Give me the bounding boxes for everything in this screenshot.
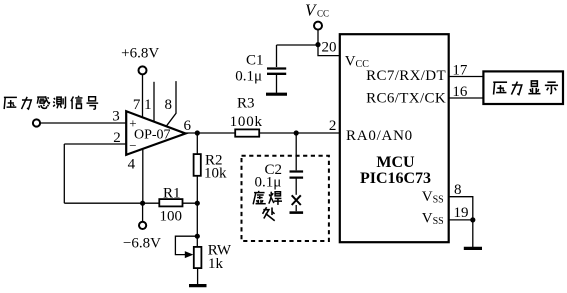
junction node 6 out xyxy=(195,130,200,135)
svg-text:100: 100 xyxy=(160,209,183,225)
svg-text:+6.8V: +6.8V xyxy=(121,46,159,62)
wire pin19 xyxy=(449,219,473,221)
capacitor C1 xyxy=(267,69,286,74)
svg-text:PIC16C73: PIC16C73 xyxy=(360,170,431,187)
svg-text:RC6/TX/CK: RC6/TX/CK xyxy=(366,90,446,106)
svg-text:17: 17 xyxy=(452,62,468,78)
wire output node6 to MCU pin2 xyxy=(186,132,340,134)
svg-text:0.1μ: 0.1μ xyxy=(235,69,262,85)
C2 bottom bar xyxy=(290,211,304,214)
wire pin1 xyxy=(153,82,155,122)
wire pin17 xyxy=(449,76,484,78)
ground C1 xyxy=(266,93,287,96)
svg-text:10k: 10k xyxy=(204,165,227,181)
wire pin16 xyxy=(449,97,484,99)
X broken joint xyxy=(292,195,301,205)
wire C1 to ground xyxy=(276,75,278,93)
wire input to pin3 xyxy=(41,122,127,124)
label 处 xyxy=(263,207,275,221)
wire feedback vertical xyxy=(63,144,65,203)
svg-text:1k: 1k xyxy=(208,256,224,272)
junction feedback R1 left xyxy=(140,201,145,206)
wire -6.8V stub xyxy=(142,203,144,222)
terminal Vcc xyxy=(314,22,322,30)
resistor R3 xyxy=(235,129,259,136)
junction RW wiper xyxy=(195,234,200,239)
MCU block PIC16C73 xyxy=(340,34,449,242)
terminal input signal xyxy=(33,119,40,126)
svg-text:19: 19 xyxy=(454,205,469,221)
wire RW wiper xyxy=(175,236,197,254)
wire pin2 xyxy=(64,143,126,145)
resistor R2 xyxy=(194,154,201,176)
wire Vcc terminal to junction xyxy=(277,30,319,67)
junction R1 right xyxy=(195,201,200,206)
svg-text:2: 2 xyxy=(113,130,121,146)
svg-text:100k: 100k xyxy=(230,114,263,130)
svg-text:6: 6 xyxy=(184,118,192,134)
svg-text:C1: C1 xyxy=(246,53,264,69)
junction Vss xyxy=(470,217,475,222)
wire vss to ground xyxy=(472,220,474,247)
svg-text:RA0/AN0: RA0/AN0 xyxy=(346,128,413,144)
svg-text:RC7/RX/DT: RC7/RX/DT xyxy=(366,68,446,84)
wire pin8 MCU xyxy=(449,197,473,220)
svg-text:MCU: MCU xyxy=(376,154,415,171)
wire RW to ground xyxy=(197,268,199,284)
ground RW xyxy=(189,284,207,287)
ground MCU vss xyxy=(464,247,482,250)
svg-text:8: 8 xyxy=(454,182,462,198)
display box 压力显示 xyxy=(483,71,563,104)
junction C2 node xyxy=(294,130,299,135)
label 压力感测信号 xyxy=(4,97,17,109)
op-amp U1 OP-07 xyxy=(126,111,185,155)
potentiometer RW xyxy=(194,247,202,268)
svg-text:CC: CC xyxy=(317,8,329,18)
svg-text:16: 16 xyxy=(452,84,468,100)
svg-text:4: 4 xyxy=(128,157,136,173)
junction Vcc xyxy=(315,42,320,47)
svg-text:3: 3 xyxy=(112,108,120,124)
svg-text:R1: R1 xyxy=(163,185,181,201)
wire C2 X to bar xyxy=(295,205,297,211)
terminal -6.8V xyxy=(139,222,146,229)
svg-text:20: 20 xyxy=(322,40,337,56)
svg-text:2: 2 xyxy=(329,118,337,134)
wire feedback horizontal xyxy=(64,202,197,204)
wire C2 below plates xyxy=(295,179,297,195)
wire R2 branch xyxy=(196,133,198,247)
resistor R1 xyxy=(159,199,182,206)
label 虚焊 xyxy=(253,191,266,205)
svg-text:8: 8 xyxy=(165,97,173,113)
wire pin7 supply xyxy=(142,75,144,118)
svg-text:0.1μ: 0.1μ xyxy=(255,175,282,191)
wire C2 branch xyxy=(295,133,297,170)
wire pin8 xyxy=(166,81,176,126)
wire pin20 xyxy=(318,45,340,56)
RW wiper arrowhead xyxy=(185,251,194,258)
capacitor C2 xyxy=(290,172,304,178)
svg-text:−6.8V: −6.8V xyxy=(123,235,161,251)
dashed box cold solder xyxy=(242,156,329,241)
svg-text:7: 7 xyxy=(133,97,141,113)
terminal +6.8V xyxy=(139,66,147,74)
svg-text:OP-07: OP-07 xyxy=(134,128,171,143)
svg-text:1: 1 xyxy=(144,97,152,113)
svg-text:R3: R3 xyxy=(237,96,255,112)
wire pin4 xyxy=(142,149,144,203)
